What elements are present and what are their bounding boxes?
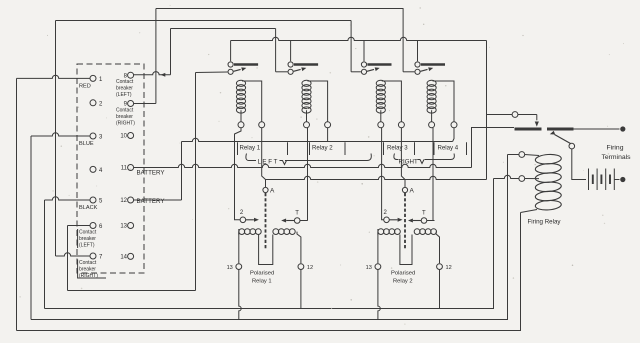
relay 3 terminal b riser to armature A2 [401,128,405,187]
polarised relay 1 terminal 12 riser to bus [300,270,302,309]
lower firing terminal [620,177,625,182]
relay 2 moving contact circle [288,69,293,74]
svg-text:T: T [422,211,426,217]
terminal 5 (BLACK) [90,197,96,203]
svg-text:Firing: Firing [607,145,624,152]
relay 1 label box sides [237,142,239,155]
relay 2 terminal b riser to rail 1 [327,128,329,142]
firing relay lower terminal and lead [519,176,525,182]
relay 3 coil bottom lead [380,110,382,122]
terminal 7 [90,253,96,259]
polarised relay 2 terminal 12 riser to bus [439,270,441,309]
relay 3 fixed contact bar [367,63,391,65]
relay 1 coil bottom lead [240,110,242,122]
polarised relay 2 core outline [377,232,379,264]
svg-text:2: 2 [99,101,103,107]
polarised relay 1 contact 2 [240,217,246,223]
riser from contact rail to firing relay trip [486,41,488,180]
arrowhead on terminal 8 wire [161,73,166,77]
relay 3 coil top lead to right [382,81,402,122]
relay 1 moving contact circle [228,69,233,74]
terminal 2 [90,100,96,106]
svg-text:breaker: breaker [116,114,133,120]
relay 2 label box sides [309,142,311,155]
polarised relay 1 contact 2 arrow [246,219,254,221]
svg-text:(LEFT): (LEFT) [79,243,95,249]
polarised relay 1 left winding [239,229,245,235]
terminal 4 [90,166,96,172]
svg-text:11: 11 [121,166,128,172]
relay 2 moving blade and arrow [294,69,301,71]
terminal 3 (BLUE) [90,133,96,139]
svg-text:Contact: Contact [79,230,97,236]
wire terminal 6 down to bottom run [68,225,90,227]
firing relay moving blade [555,135,571,144]
relay 4 moving blade and arrow [421,69,428,71]
svg-text:Relay 3: Relay 3 [387,144,408,151]
relay 4 armature wire [403,71,414,73]
svg-text:A: A [410,188,415,195]
relay 1 fixed contact circle [228,62,233,67]
wire riser terminal 6 run up to relay 1 armature [195,73,197,291]
relay 4 terminal circle b [451,122,457,128]
battery rail riser to firing contact [472,128,515,168]
relay 4 coil [427,80,436,86]
upper firing terminal [620,126,625,131]
wire terminal 5 BLACK to bottom bus (net to firing relay lower terminal) [45,197,90,200]
polarised relay 1 contact T arrow [286,220,294,222]
polarised relay 1 armature pivot A [263,187,268,192]
svg-text:breaker: breaker [79,236,96,242]
relay 2 terminal a riser to polarised relay 1 contact T [307,128,309,221]
svg-text:12: 12 [446,265,452,271]
svg-text:breaker: breaker [116,86,133,92]
relay 2 coil top lead to right [308,81,328,122]
LEFT brace under relays 1-2 [246,154,256,161]
svg-text:Polarised: Polarised [250,271,274,277]
relay 1 switch drop from contact rail [230,41,232,62]
trip wire with terminal to moving bar [487,114,537,116]
relay 4 label box sides [433,142,435,155]
polarised relay 2 terminal 13 riser to bus [378,270,380,320]
svg-text:14: 14 [120,255,127,261]
relay 3 terminal circle a [378,122,384,128]
relay 2 switch drop from contact rail [290,41,292,62]
relay 2 fixed contact bar [294,63,318,65]
relay 1 coil [236,80,245,86]
svg-text:7: 7 [99,255,103,261]
terminal 1 (RED) [90,75,96,81]
svg-text:10: 10 [120,134,127,140]
relay 4 armature riser [402,9,404,72]
terminal 14 [128,253,134,259]
bottom bus rail from terminal 5 BLACK to firing relay lower terminal [45,179,494,309]
polarised relay 2 right winding [414,229,420,235]
svg-text:Polarised: Polarised [391,271,415,277]
svg-text:Contact: Contact [116,108,134,114]
wire battery to lower firing terminal [614,179,619,181]
polarised relay 1 contact T [294,218,300,224]
svg-text:2: 2 [240,210,244,216]
svg-text:2: 2 [384,210,388,216]
relay 2 terminal circle b [325,122,331,128]
svg-text:Contact: Contact [116,79,134,85]
svg-text:RIGHT: RIGHT [399,159,418,166]
top rail terminal 8 to relay 2 armature [171,28,276,30]
svg-text:Firing Relay: Firing Relay [528,219,562,226]
rail 1 from terminal 12 across relay labels [182,138,453,141]
relay 2 armature riser [275,29,277,72]
trip arrow onto contact bar [536,115,538,121]
relay 3 switch drop from contact rail [363,41,365,62]
svg-text:BATTERY: BATTERY [137,170,165,177]
wire pivot to battery [572,149,586,180]
relay 4 switch drop from contact rail [417,41,419,62]
polarised relay 2 left winding [378,229,384,235]
wire terminal 8 to relay 2 armature riser [134,72,171,75]
relay 3 coil [376,80,385,86]
relay 2 terminal circle a [304,122,310,128]
terminal 8 [128,72,134,78]
relay 1 terminal a riser to polarised relay 1 contact 2 [235,128,242,220]
polarised relay 1 armature shaft [265,193,267,249]
polarised relay 1 right winding [273,229,279,235]
relay 4 moving contact circle [415,69,420,74]
svg-text:Relay 1: Relay 1 [252,279,272,285]
paper speckle texture (decorative) [208,54,209,55]
polarised relay 1 terminal 13 [236,264,242,270]
polarised relay 2 contact T [421,218,427,224]
terminal 13 [128,223,134,229]
svg-text:A: A [270,188,275,195]
svg-text:RED: RED [79,83,91,89]
relay 4 coil bottom lead [431,110,433,122]
relay 2 coil [302,80,311,86]
relay 1 terminal b riser to armature A1 [262,128,266,187]
firing relay upper terminal and lead [519,152,525,158]
svg-text:(RIGHT): (RIGHT) [116,121,135,127]
svg-text:3: 3 [99,135,103,141]
wire terminal 11 battery rail [134,164,472,167]
svg-text:BLACK: BLACK [79,205,98,211]
polarised relay 2 contact T lead [427,220,435,222]
wire firing bar to upper firing terminal [574,128,620,130]
relay 4 coil top lead to right [433,81,454,122]
relay 2 fixed contact circle [288,62,293,67]
terminal 9 [128,101,134,107]
rail of relay fixed contacts (to firing relay trip) [231,37,487,40]
relay 3 terminal circle b [398,122,404,128]
polarised relay 1 core outline [238,232,240,264]
svg-text:Relay 2: Relay 2 [393,279,413,285]
svg-text:4: 4 [99,168,103,174]
relay 3 moving blade and arrow [367,69,374,71]
bottom bus rail from terminal 1 RED to firing coil bottom [17,213,521,331]
relay 3 armature riser [350,21,352,72]
relay 3 fixed contact circle [361,62,366,67]
svg-text:L E F T: L E F T [258,159,278,166]
RIGHT brace under relays 3-4 [394,154,399,160]
wire terminal 12 to relay rail 1 [134,199,182,201]
polarised relay 2 contact T arrow [413,220,421,222]
svg-text:12: 12 [307,265,313,271]
svg-text:BATTERY: BATTERY [137,198,165,205]
svg-text:Contact: Contact [79,260,97,266]
svg-text:1: 1 [99,77,103,83]
svg-text:13: 13 [366,265,372,271]
relay 4 terminal b riser to rail 1 right end [453,128,454,142]
svg-text:Terminals: Terminals [601,154,631,161]
svg-text:BLUE: BLUE [79,141,94,147]
relay 2 armature wire [276,71,288,73]
polarised relay 1 contact T lead [300,220,308,222]
relay 2 coil bottom lead [306,110,308,122]
svg-text:Relay 2: Relay 2 [312,144,333,151]
terminal 6 [90,223,96,229]
wire terminal 3 BLUE to bottom bus (net to firing relay upper terminal) [31,133,90,136]
svg-text:breaker: breaker [79,267,96,273]
bottom bus rail from terminal 3 to firing relay upper terminal [31,155,508,320]
relay 1 coil top lead to right [242,81,262,122]
wire terminal 9 up long vertical [134,103,156,105]
firing contact bar right [547,128,574,131]
svg-text:6: 6 [99,224,103,230]
svg-text:(LEFT): (LEFT) [116,92,132,98]
polarised relay 1 terminal 13 riser to bus [239,270,241,320]
terminal 11 [128,165,134,171]
relay 1 armature wire to left vertical [196,71,228,74]
armature rail A to firing relay trip riser [266,176,487,179]
top rail from terminal 7 to relay 3 armature [56,20,352,22]
firing contact bar left [515,128,542,131]
relay 4 fixed contact bar [421,63,445,65]
relay 1 terminal circle a [238,122,244,128]
relay 3 label box sides [383,142,385,155]
topmost rail terminal 9 to relay 4 armature [156,8,404,10]
polarised relay 2 terminal 12 [437,264,443,270]
polarised relay 2 armature shaft [404,193,406,249]
polarised relay 2 terminal 13 [375,264,381,270]
svg-text:Relay 4: Relay 4 [438,144,459,151]
relay 4 fixed contact circle [415,62,420,67]
svg-text:13: 13 [120,224,127,230]
firing relay pivot [569,143,575,149]
svg-text:5: 5 [99,199,103,205]
relay 3 armature wire [351,71,361,73]
polarised relay 2 contact 2 arrow [390,219,398,221]
terminal 12 [128,197,134,203]
wire terminal 1 RED to bottom bus (net to firing coil) [17,75,90,78]
relay 3 moving contact circle [361,69,366,74]
svg-text:12: 12 [120,198,127,204]
polarised relay 2 armature pivot A [402,187,407,192]
firing relay coil bottom lead [521,210,538,213]
relay 1 moving blade and arrow [234,69,241,71]
relay 3 terminal a riser to polarised relay 2 contact 2 [382,128,384,220]
firing relay coil [535,154,562,165]
relay 1 fixed contact bar [234,63,258,65]
svg-text:Relay 1: Relay 1 [240,144,261,151]
terminal 10 [128,133,134,139]
svg-text:13: 13 [227,265,233,271]
wire terminal 7 to top rail via long left vertical [56,253,90,256]
battery cells [588,169,590,191]
relay 4 terminal circle a [429,122,435,128]
svg-text:T: T [295,211,299,217]
polarised relay 1 terminal 12 [298,264,304,270]
polarised relay 2 contact 2 [384,217,390,223]
relay 1 terminal circle b [259,122,265,128]
terminal block dashed enclosure [77,64,144,273]
relay 4 terminal a riser to polarised relay 2 contact T [432,128,434,221]
